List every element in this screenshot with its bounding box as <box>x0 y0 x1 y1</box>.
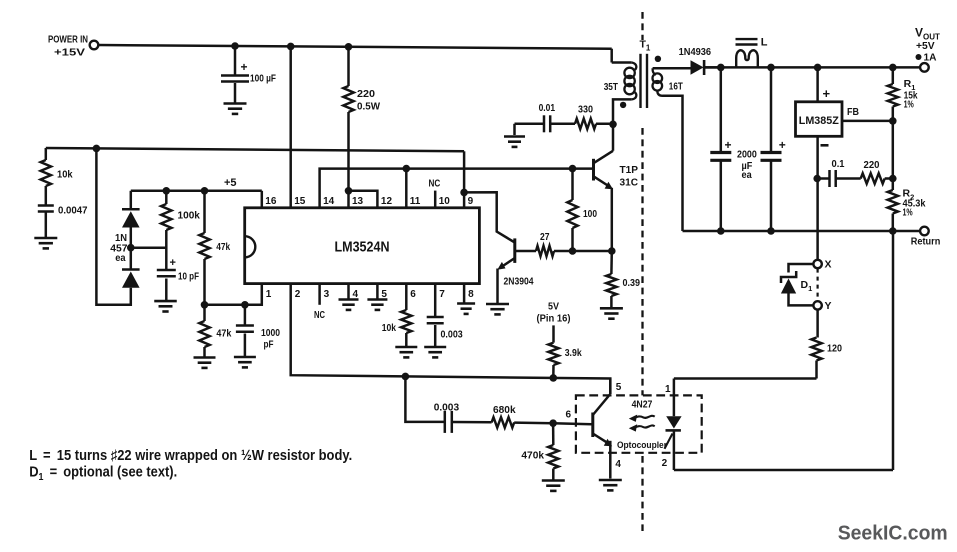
svg-text:(Pin 16): (Pin 16) <box>537 313 571 325</box>
svg-text:10k: 10k <box>57 169 73 181</box>
svg-text:0.0047: 0.0047 <box>58 205 88 217</box>
svg-text:470k: 470k <box>521 449 544 461</box>
svg-text:10 pF: 10 pF <box>178 271 199 283</box>
svg-text:14: 14 <box>323 196 335 207</box>
svg-text:16T: 16T <box>669 81 683 93</box>
svg-text:FB: FB <box>847 106 859 118</box>
svg-text:6: 6 <box>566 409 572 420</box>
svg-text:2N3904: 2N3904 <box>504 276 534 288</box>
svg-text:+: + <box>823 86 831 101</box>
svg-text:100k: 100k <box>178 210 201 222</box>
svg-text:3.9k: 3.9k <box>565 347 582 359</box>
svg-text:SeekIC.com: SeekIC.com <box>838 523 948 545</box>
svg-text:1N4936: 1N4936 <box>679 46 712 58</box>
svg-text:4N27: 4N27 <box>632 399 653 411</box>
svg-text:220: 220 <box>864 159 880 171</box>
svg-text:6: 6 <box>410 289 416 300</box>
svg-text:+5V: +5V <box>916 40 935 52</box>
svg-text:0.39: 0.39 <box>623 277 641 289</box>
svg-text:680k: 680k <box>493 404 516 416</box>
svg-text:L = 15 turns ♯22 wire wrappe: L = 15 turns ♯22 wire wrapped on ½W resi… <box>29 448 352 464</box>
svg-text:Optocoupler: Optocoupler <box>617 440 667 450</box>
svg-text:12: 12 <box>381 196 393 207</box>
svg-text:9: 9 <box>468 196 474 207</box>
svg-text:16: 16 <box>265 196 277 207</box>
svg-text:2000: 2000 <box>737 149 757 161</box>
svg-text:13: 13 <box>352 196 364 207</box>
svg-text:1%: 1% <box>903 207 914 219</box>
svg-text:1: 1 <box>266 289 272 300</box>
svg-text:+: + <box>725 138 732 152</box>
svg-text:1A: 1A <box>924 52 937 64</box>
svg-text:1000: 1000 <box>261 327 280 339</box>
svg-text:120: 120 <box>827 343 842 355</box>
svg-text:15: 15 <box>294 196 306 207</box>
svg-text:100 µF: 100 µF <box>250 73 276 85</box>
svg-text:+15V: +15V <box>54 48 85 59</box>
svg-text:NC: NC <box>429 179 441 190</box>
svg-text:0.01: 0.01 <box>539 102 556 114</box>
svg-text:0.003: 0.003 <box>441 328 463 340</box>
svg-text:0.003: 0.003 <box>434 401 460 413</box>
svg-text:2: 2 <box>295 289 301 300</box>
svg-text:2: 2 <box>662 458 668 469</box>
svg-text:47k: 47k <box>216 328 231 340</box>
svg-text:0.5W: 0.5W <box>357 101 380 113</box>
svg-text:10k: 10k <box>382 322 396 334</box>
svg-text:8: 8 <box>468 289 474 300</box>
svg-text:7: 7 <box>439 289 445 300</box>
svg-text:27: 27 <box>540 231 550 243</box>
svg-text:+: + <box>779 138 786 152</box>
svg-text:ea: ea <box>742 169 752 181</box>
svg-text:POWER IN: POWER IN <box>48 35 88 46</box>
svg-text:100: 100 <box>583 208 597 220</box>
svg-text:LM3524N: LM3524N <box>335 240 390 256</box>
svg-text:D1 = optional (see text).: D1 = optional (see text). <box>29 465 177 484</box>
svg-text:NC: NC <box>314 310 325 321</box>
svg-text:1%: 1% <box>904 99 915 111</box>
svg-text:pF: pF <box>264 339 274 351</box>
svg-text:330: 330 <box>578 104 593 116</box>
svg-text:ea: ea <box>115 252 125 264</box>
svg-text:5V: 5V <box>548 300 559 312</box>
svg-text:11: 11 <box>410 196 421 207</box>
svg-text:Y: Y <box>825 300 832 312</box>
svg-text:T1P: T1P <box>620 164 639 176</box>
svg-text:220: 220 <box>357 88 375 100</box>
svg-text:LM385Z: LM385Z <box>799 115 839 127</box>
svg-text:3: 3 <box>324 289 330 300</box>
svg-text:1: 1 <box>665 384 671 395</box>
svg-text:X: X <box>825 259 832 271</box>
svg-text:4: 4 <box>615 459 621 470</box>
svg-text:0.1: 0.1 <box>832 158 845 170</box>
svg-text:+: + <box>241 60 248 74</box>
svg-text:35T: 35T <box>604 81 619 93</box>
svg-text:10: 10 <box>439 196 451 207</box>
svg-text:+: + <box>170 257 176 269</box>
svg-text:Return: Return <box>911 236 941 248</box>
svg-text:+5: +5 <box>224 177 237 189</box>
svg-text:31C: 31C <box>620 177 639 189</box>
svg-text:47k: 47k <box>216 241 230 253</box>
svg-text:L: L <box>761 37 768 49</box>
svg-text:5: 5 <box>616 382 622 393</box>
